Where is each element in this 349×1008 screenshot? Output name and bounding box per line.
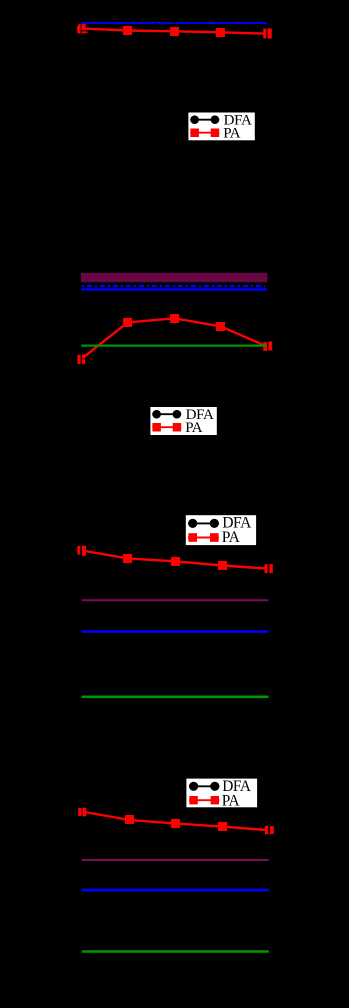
subplot1 blue line <box>81 22 267 24</box>
subplot3 right end cluster <box>265 564 273 573</box>
legend 4 box <box>186 778 258 808</box>
subplot3 PA red curve <box>84 551 266 569</box>
svg-text:PA: PA <box>222 792 240 809</box>
subplot2 PA marker M3 <box>170 314 179 323</box>
subplot4 right end cluster <box>265 826 274 835</box>
subplot2 blue solid line <box>81 288 267 290</box>
legend 2 box <box>150 406 218 435</box>
legend 1 box <box>188 112 256 141</box>
subplot4 PA marker M3 <box>171 819 180 828</box>
legend 3 DFA sample line <box>188 522 219 524</box>
subplot4 blue line <box>82 889 269 892</box>
legend 4 PA sample line <box>189 799 219 801</box>
subplot3 PA marker M4 <box>218 561 227 570</box>
subplot3 purple line <box>82 599 269 601</box>
subplot4 PA marker M4 <box>218 822 227 831</box>
legend 2 PA sample line <box>152 426 181 428</box>
subplot1 PA red curve <box>84 29 266 34</box>
subplot1 PA marker M3 <box>170 27 179 36</box>
legend 1 PA marker squares <box>190 129 219 138</box>
legend 3 DFA marker circles <box>188 519 197 528</box>
subplot2 blue dashed line <box>82 285 265 287</box>
legend 4 DFA marker circles <box>189 782 198 791</box>
subplot4 purple line <box>82 859 269 861</box>
legend 4 PA marker squares <box>189 796 219 804</box>
svg-text:PA: PA <box>222 529 241 546</box>
subplot2 PA marker M2 <box>123 318 132 327</box>
subplot1 PA marker M4 <box>216 28 225 37</box>
subplot3 green line <box>82 695 269 698</box>
subplot2 green line <box>82 345 268 347</box>
subplot4 PA red curve <box>84 812 266 830</box>
subplot3 left end cluster <box>77 546 86 556</box>
legend 3 PA sample line <box>188 537 219 539</box>
legend 1 DFA sample line <box>190 119 219 121</box>
legend 3 PA marker squares <box>188 533 218 542</box>
legend 2 DFA marker circles <box>152 410 161 419</box>
legend 4 DFA sample line <box>189 785 219 787</box>
subplot2 right end cluster <box>263 341 272 351</box>
legend 3 box <box>185 515 257 546</box>
subplot2 purple band <box>81 273 268 282</box>
subplot4 left end cluster <box>78 808 86 817</box>
subplot2 PA red curve <box>83 318 265 357</box>
legend 1 PA sample line <box>190 132 219 134</box>
subplot1 PA marker M2 <box>123 26 132 35</box>
subplot3 PA marker M3 <box>171 557 180 566</box>
subplot3 PA marker M2 <box>123 554 132 563</box>
subplot1 right end cluster <box>263 28 272 38</box>
svg-text:PA: PA <box>223 125 241 141</box>
subplot3 blue line <box>82 630 269 633</box>
subplot4 PA marker M2 <box>125 815 134 824</box>
subplot2 PA marker M4 <box>216 322 225 331</box>
subplot4 green line <box>82 950 269 953</box>
legend 2 PA marker squares <box>152 423 181 432</box>
svg-text:PA: PA <box>185 420 203 436</box>
legend 1 DFA marker circles <box>190 115 199 124</box>
subplot1 left end cluster <box>77 24 87 34</box>
subplot2 left end cluster <box>77 355 85 365</box>
legend 2 DFA sample line <box>152 413 181 415</box>
